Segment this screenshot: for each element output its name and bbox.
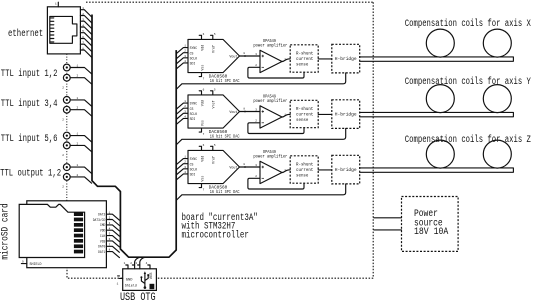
microSD card outline — [19, 204, 84, 257]
svg-text:microSD card: microSD card — [0, 203, 12, 259]
coax connector J3 (TTL 2) — [63, 74, 70, 81]
board outline (dashed): right edge — [372, 2, 374, 278]
wire: microSD VSS to bus — [106, 241, 119, 247]
wire: microSD CMD to bus — [106, 225, 119, 231]
shield dotted chain: ethernet shield down through TTL connectors to microSD — [66, 54, 68, 201]
svg-text:VSS: VSS — [100, 240, 105, 244]
svg-text:DAT3/CD: DAT3/CD — [93, 218, 106, 223]
svg-text:microcontroller: microcontroller — [182, 230, 249, 242]
svg-text:USB OTG: USB OTG — [120, 292, 156, 302]
microSD card connector box — [27, 201, 107, 268]
microSD pad/pin CLK — [74, 234, 83, 238]
wire: TTL 4 to bus — [70, 110, 91, 116]
wire: ethernet pin 3 to bus — [80, 21, 91, 28]
ethernet top shield stub — [57, 2, 59, 7]
wire: ethernet pin 2 to bus — [80, 16, 91, 23]
wire: ethernet pin 6 to bus — [80, 39, 91, 46]
svg-text:SHIELD: SHIELD — [30, 263, 42, 267]
wire: TTL 1 to bus — [70, 68, 91, 74]
svg-text:Compensation coils for axis Y: Compensation coils for axis Y — [405, 76, 531, 88]
svg-text:TTL input 5,6: TTL input 5,6 — [1, 133, 58, 145]
svg-text:CMD: CMD — [100, 224, 105, 228]
wire: TTL 8 to bus — [70, 177, 91, 183]
coax connector J9 (TTL 8) — [63, 174, 70, 181]
board outline (dashed): top edge — [86, 1, 373, 3]
svg-text:DAT0: DAT0 — [98, 246, 105, 250]
USB trident icon — [141, 274, 148, 288]
wire: TTL 7 to bus — [70, 167, 91, 173]
coax connector J8 (TTL 7) — [63, 164, 70, 171]
RJ45 socket drawing — [50, 16, 77, 43]
wire: ethernet pin 1 to bus — [80, 10, 91, 17]
coax connector J5 (TTL 4) — [63, 106, 70, 113]
wire: ethernet pin 4 to bus — [80, 27, 91, 34]
svg-text:TTL input 1,2: TTL input 1,2 — [1, 68, 58, 80]
svg-text:Shield: Shield — [125, 283, 137, 288]
svg-text:TTL input 3,4: TTL input 3,4 — [1, 98, 58, 110]
wire: TTL 3 to bus — [70, 100, 91, 106]
svg-text:VDD: VDD — [100, 230, 105, 234]
ethernet connector J1 body — [47, 7, 80, 54]
wire: TTL 5 to bus — [70, 136, 91, 142]
wire: power source - — [374, 229, 402, 231]
microSD pad/pin CMD — [74, 223, 83, 227]
coax connector J7 (TTL 6) — [63, 142, 70, 149]
wire: microSD DAT2 to bus — [106, 214, 119, 220]
wire: ethernet pin 7 to bus — [80, 44, 91, 51]
main bus: left vertical, jog, down to USB, right vertical to DACs — [92, 15, 176, 258]
channel Z: DAC + OPA549 + R-shunt + H-bridge + coils — [177, 140, 514, 200]
USB top pins — [126, 265, 128, 269]
microSD pad/pin DAT1 — [74, 250, 83, 254]
microSD pad/pin DAT3/CD — [74, 218, 83, 222]
svg-text:Compensation coils for axis X: Compensation coils for axis X — [405, 18, 531, 30]
svg-text:18V 10A: 18V 10A — [414, 227, 448, 238]
microSD pad/pin VSS — [74, 239, 83, 243]
coax connector J6 (TTL 5) — [63, 132, 70, 139]
wire: microSD DAT1 to bus — [106, 252, 119, 258]
power source block (dashed) — [402, 197, 459, 252]
microSD SHIELD pin — [21, 263, 26, 265]
board outline (dashed): bottom edge + stub up to microSD shield — [67, 268, 373, 278]
wire: microSD DAT0 to bus — [106, 246, 119, 252]
coax connector J4 (TTL 3) — [63, 97, 70, 104]
wire: TTL 6 to bus — [70, 145, 91, 151]
wire: TTL 2 to bus — [70, 78, 91, 84]
channel Y: DAC + OPA549 + R-shunt + H-bridge + coils — [177, 85, 514, 145]
microSD pad/pin DAT2 — [74, 212, 83, 216]
wire: microSD DAT3/CD to bus — [106, 220, 119, 226]
USB OTG connector box — [123, 269, 157, 291]
svg-text:TTL output 1,2: TTL output 1,2 — [0, 169, 61, 180]
wires: bus drops to USB pins — [135, 257, 146, 265]
svg-text:DAT1: DAT1 — [98, 251, 105, 255]
svg-text:GND: GND — [126, 278, 133, 282]
wire: ethernet pin 8 to bus — [80, 50, 91, 57]
svg-text:Compensation coils for axis Z: Compensation coils for axis Z — [405, 134, 531, 146]
microSD pad/pin VDD — [74, 228, 83, 232]
svg-text:CLK: CLK — [100, 235, 106, 239]
wire: power source + — [374, 217, 402, 219]
wire: ethernet pin 5 to bus — [80, 33, 91, 40]
svg-text:DAT2: DAT2 — [98, 214, 105, 218]
wire: microSD CLK to bus — [106, 236, 119, 242]
wire: microSD VDD to bus — [106, 230, 119, 236]
channel X: DAC + OPA549 + R-shunt + H-bridge + coils — [177, 29, 514, 89]
microSD pad/pin DAT0 — [74, 244, 83, 248]
USB left shield pin — [118, 276, 123, 279]
coax connector J2 (TTL 1) — [63, 64, 70, 71]
svg-text:ethernet: ethernet — [8, 28, 43, 40]
svg-text:VBUS: VBUS — [149, 272, 153, 279]
